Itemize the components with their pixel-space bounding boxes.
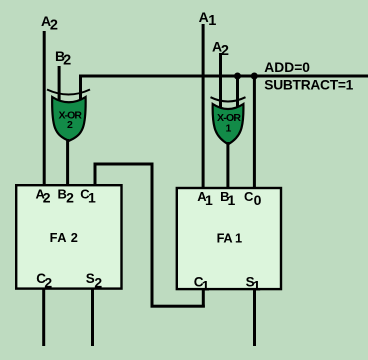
xor gate U1 input arc — [211, 97, 246, 101]
wire C2 output — [42, 289, 45, 346]
xor gate U2 body (X-OR 2) — [52, 97, 86, 141]
wire XOR1 right input from control line — [236, 75, 239, 113]
xor gate U1 body (X-OR 1) — [213, 104, 244, 144]
full adder FA1 box — [177, 188, 281, 289]
svg-text:1: 1 — [225, 123, 231, 135]
wire B2 input — [58, 66, 61, 105]
wire S1 output — [253, 289, 256, 346]
wire carry route vertical riser — [151, 163, 154, 308]
svg-text:SUBTRACT=1: SUBTRACT=1 — [264, 78, 353, 93]
svg-text:2: 2 — [67, 119, 73, 131]
wire XOR2 right input (bend down from control line) — [79, 75, 82, 106]
wire ADD/SUBTRACT horizontal control line — [79, 75, 368, 78]
wire XOR1 output to FA1 B1 input — [226, 142, 229, 188]
junction dot on control line (C0) — [251, 73, 258, 80]
wire FA1 C1 carry out down stub — [202, 289, 205, 308]
wire carry route top horizontal — [94, 163, 154, 166]
junction dot on control line (XOR1 input) — [234, 73, 241, 80]
wire carry route bottom horizontal — [151, 305, 205, 308]
svg-text:FA 1: FA 1 — [217, 230, 243, 245]
wire carry route into FA2 C1 input — [94, 163, 97, 186]
wire A2 input to XOR1 — [219, 53, 222, 112]
xor gate U2 input arc — [47, 90, 90, 95]
wire C0 input from control line to FA1 — [253, 75, 256, 189]
wire XOR2 output to FA2 B2 input — [66, 139, 69, 185]
full adder FA2 box — [16, 185, 121, 288]
wire A1 input (right) — [202, 24, 205, 188]
wire S2 output — [91, 289, 94, 346]
wire A2 input (left) — [43, 31, 46, 184]
svg-text:ADD=0: ADD=0 — [264, 60, 310, 75]
svg-text:FA 2: FA 2 — [50, 230, 78, 245]
